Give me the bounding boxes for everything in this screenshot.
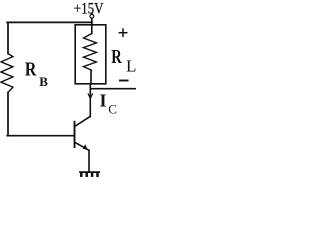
minus sign: [120, 80, 128, 82]
current arrow I_C: [88, 94, 92, 99]
wire: collector drop: [89, 84, 91, 117]
resistor R_B: [1, 54, 13, 93]
wire: supply drop from node into box: [91, 18, 93, 33]
transistor Q1 emitter arrowhead: [83, 144, 88, 150]
load box: [75, 25, 106, 84]
label I_C: [100, 90, 117, 116]
svg-text:+15V: +15V: [74, 0, 104, 17]
svg-text:B: B: [39, 74, 48, 89]
ground: [80, 172, 99, 176]
svg-text:R: R: [25, 59, 37, 81]
wire: RL bottom lead / collector vertical: [90, 70, 92, 84]
plus sign: [119, 29, 126, 36]
transistor Q1 collector lead: [75, 116, 90, 126]
svg-text:L: L: [126, 56, 136, 75]
terminal node circle: [90, 14, 94, 18]
wire: left vertical upper: [7, 22, 9, 53]
svg-text:I: I: [100, 90, 107, 110]
label R_L: [111, 46, 136, 76]
svg-text:C: C: [108, 102, 117, 117]
wire: output branch to right edge: [90, 88, 136, 90]
terminal stub: [91, 13, 93, 14]
wire: left vertical lower: [7, 92, 9, 135]
transistor Q1 base bar: [74, 122, 76, 147]
wire: base horizontal: [7, 135, 74, 137]
svg-text:R: R: [111, 46, 122, 68]
wire: top horizontal rail: [7, 21, 92, 23]
label R_B: [25, 59, 48, 90]
wire: emitter vertical: [88, 150, 90, 171]
resistor R_L: [84, 34, 97, 71]
transistor Q1 emitter lead: [75, 143, 89, 151]
